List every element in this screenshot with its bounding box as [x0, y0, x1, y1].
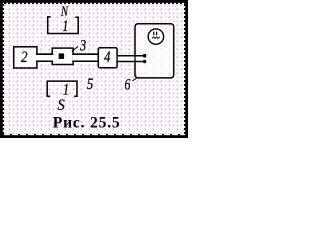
middle box housing element 3	[52, 48, 73, 64]
terminal dot (top)	[143, 54, 147, 58]
svg-text:2: 2	[21, 49, 27, 66]
cable gap between wires (inside box)	[136, 57, 144, 61]
big box (device 6)	[135, 24, 174, 78]
terminal dot (bottom)	[143, 60, 147, 64]
svg-text:6: 6	[125, 77, 131, 94]
border frame	[0, 0, 188, 138]
svg-text:Рис. 25.5: Рис. 25.5	[53, 114, 121, 131]
svg-text:1: 1	[62, 18, 68, 36]
magnet pole S bracket (part 1, bottom)	[47, 81, 77, 96]
wire from box 4 to terminal (bottom)	[117, 61, 144, 63]
wire (right channel top line)	[72, 53, 98, 55]
connecting rod channel interior (right)	[72, 55, 97, 61]
wire (left channel top line)	[36, 53, 53, 55]
leader line to 3	[72, 47, 78, 52]
connecting rod channel interior (left)	[36, 55, 53, 61]
dial scale zigzag	[152, 37, 160, 39]
dial needle marks	[153, 32, 155, 36]
element 3 (black square)	[59, 53, 64, 59]
svg-text:5: 5	[87, 76, 93, 93]
galvanometer dial circle	[148, 29, 163, 44]
svg-text:S: S	[58, 96, 66, 114]
svg-text:4: 4	[104, 49, 110, 67]
box 2	[14, 47, 37, 68]
leader line to 6	[133, 78, 138, 81]
wire (left channel bottom line)	[36, 60, 53, 62]
cable gap between wires (left of box edge)	[118, 57, 134, 61]
svg-text:3: 3	[79, 37, 86, 55]
wire from box 4 to terminal (top)	[117, 55, 144, 57]
wire (right channel bottom line)	[72, 60, 98, 62]
box 4	[98, 48, 117, 68]
magnet pole N bracket (part 1, top)	[48, 17, 78, 34]
